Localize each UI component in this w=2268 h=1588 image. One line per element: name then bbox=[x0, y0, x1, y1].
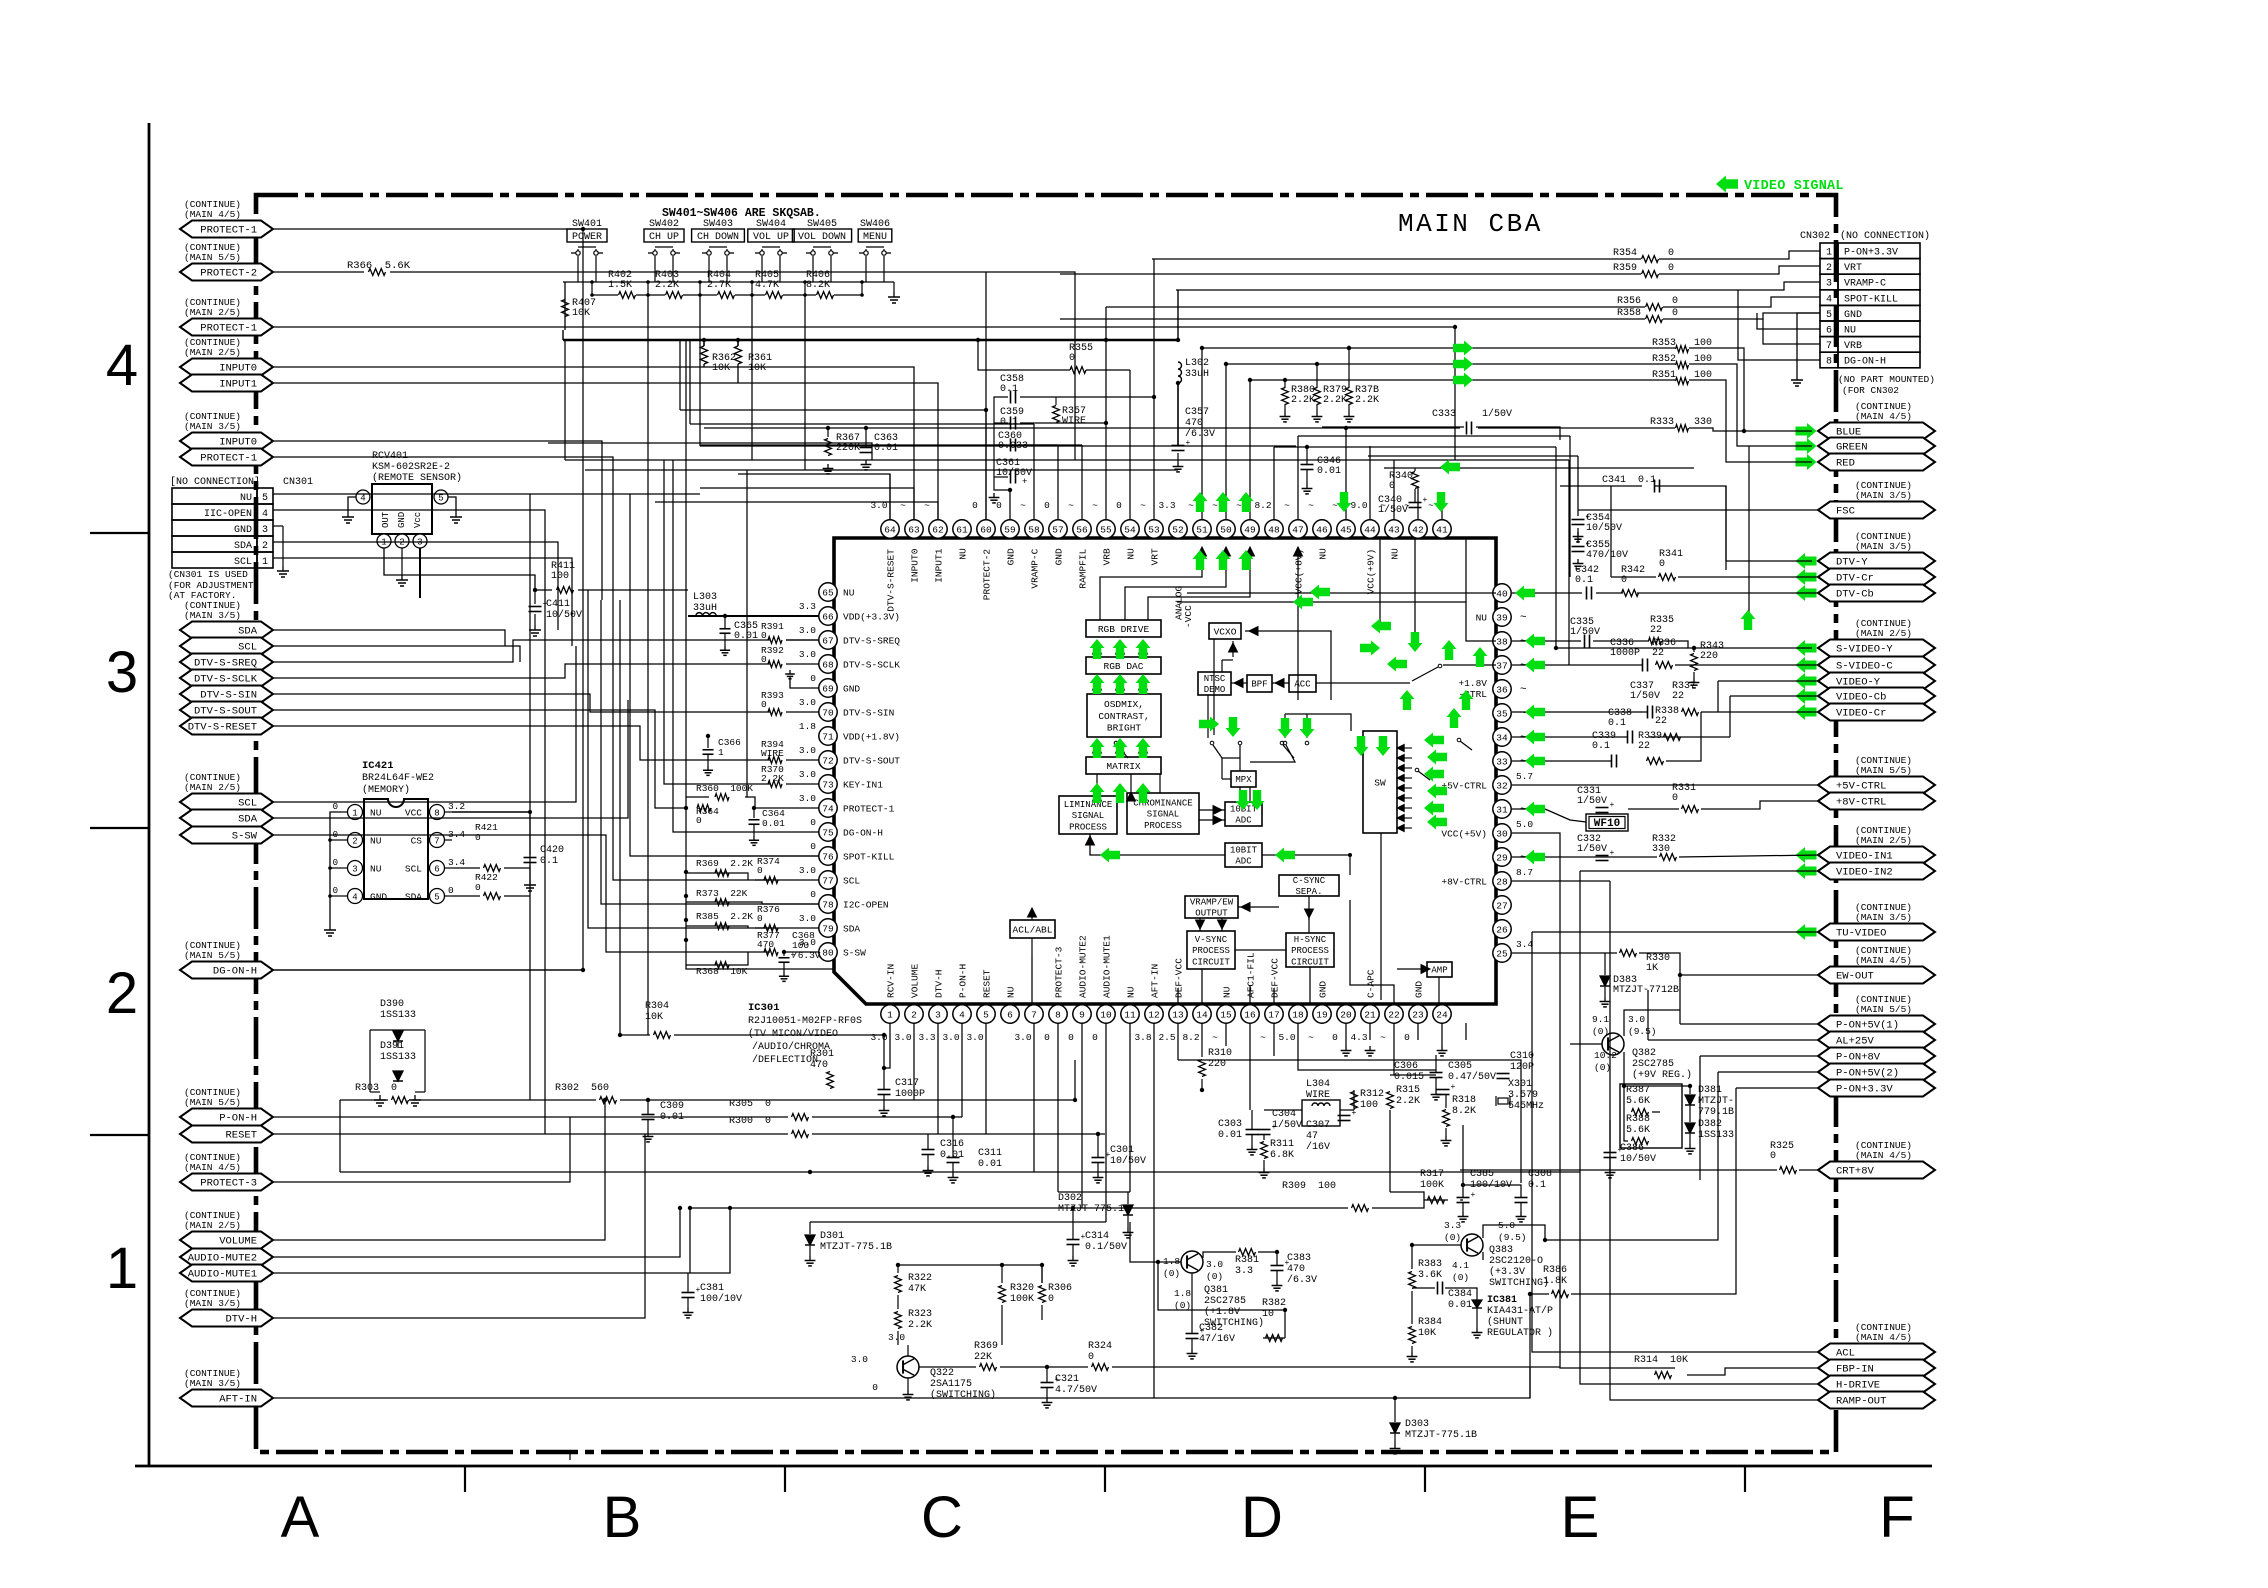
connector label P-ON-H bbox=[180, 1109, 273, 1126]
svg-text:43: 43 bbox=[1388, 524, 1400, 535]
connector label P-ON+3.3V bbox=[1818, 1080, 1935, 1097]
IC301 pin 44 VCC(+9V) bbox=[1361, 520, 1379, 538]
svg-text:PROTECT-1: PROTECT-1 bbox=[200, 323, 257, 335]
wire vert 1532 bbox=[1532, 932, 1818, 1352]
svg-text:R381: R381 bbox=[1235, 1255, 1259, 1266]
IC301 pin 73 KEY-IN1 bbox=[819, 775, 837, 793]
connector label VOLUME bbox=[180, 1232, 273, 1249]
svg-text:DTV-Cr: DTV-Cr bbox=[1836, 573, 1874, 585]
svg-text:CIRCUIT: CIRCUIT bbox=[1192, 957, 1230, 967]
svg-text:3.0: 3.0 bbox=[894, 1032, 911, 1043]
svg-text:0.01: 0.01 bbox=[940, 1150, 964, 1161]
diode D303 MTZJT-775.1B bbox=[1390, 1423, 1400, 1433]
wire pin15 stub bbox=[1225, 1023, 1227, 1046]
IC301 pin 39 NU bbox=[1493, 608, 1511, 626]
svg-text:3.0: 3.0 bbox=[799, 913, 816, 924]
wire R354 row bbox=[1152, 258, 1641, 260]
svg-text:(MAIN 5/5): (MAIN 5/5) bbox=[1855, 1004, 1912, 1015]
IC301 pin 21 C-APC bbox=[1361, 1005, 1379, 1023]
wire top 470 bbox=[585, 469, 1178, 471]
svg-text:34: 34 bbox=[1496, 732, 1508, 743]
IC301 pin 47 VCC(+8V) bbox=[1289, 520, 1307, 538]
svg-text:C309: C309 bbox=[660, 1101, 684, 1112]
svg-text:VIDEO-IN2: VIDEO-IN2 bbox=[1836, 867, 1893, 879]
wire P-ON+3.3V bbox=[1736, 1087, 1818, 1089]
svg-text:(NO CONNECTION): (NO CONNECTION) bbox=[1840, 230, 1930, 242]
svg-text:INPUT0: INPUT0 bbox=[219, 363, 257, 375]
wire pin59 up bbox=[1009, 490, 1011, 520]
IC301 pin 24 bottom bbox=[1433, 1005, 1451, 1023]
wire C386 stub bbox=[1609, 1120, 1611, 1148]
svg-text:100: 100 bbox=[1694, 370, 1712, 381]
svg-text:ACC: ACC bbox=[1294, 680, 1311, 690]
wire DTV-S-SOUT row bbox=[273, 710, 655, 737]
svg-text:64: 64 bbox=[884, 524, 896, 535]
svg-text:DG-ON-H: DG-ON-H bbox=[1844, 357, 1886, 368]
svg-text:3.0: 3.0 bbox=[851, 1354, 868, 1365]
svg-text:(0): (0) bbox=[1594, 1062, 1611, 1073]
svg-text:(MAIN 3/5): (MAIN 3/5) bbox=[184, 1378, 241, 1389]
svg-text:R300 0: R300 0 bbox=[729, 1116, 771, 1127]
svg-text:+: + bbox=[1610, 801, 1615, 810]
svg-text:VDD(+1.8V): VDD(+1.8V) bbox=[843, 732, 900, 743]
green arrow GREEN bbox=[1796, 438, 1817, 454]
svg-text:I2C-OPEN: I2C-OPEN bbox=[843, 900, 889, 911]
wire C385 row bbox=[1463, 1185, 1521, 1197]
connector label DTV-Y bbox=[1818, 553, 1935, 570]
svg-text:22K: 22K bbox=[974, 1352, 992, 1363]
svg-text:3.3: 3.3 bbox=[1444, 1220, 1461, 1231]
svg-text:(0): (0) bbox=[1452, 1272, 1469, 1283]
svg-text:68: 68 bbox=[822, 659, 834, 670]
svg-text:2.2K: 2.2K bbox=[1355, 395, 1379, 406]
wire pin40 row into IC bbox=[1187, 592, 1496, 594]
svg-text:CIRCUIT: CIRCUIT bbox=[1291, 957, 1329, 967]
IC301 pin 78 I2C-OPEN bbox=[819, 895, 837, 913]
svg-text:(MAIN 4/5): (MAIN 4/5) bbox=[1855, 1150, 1912, 1161]
green arrow VIDEO-Cb bbox=[1796, 688, 1817, 704]
svg-text:VOL UP: VOL UP bbox=[753, 232, 789, 243]
green signal arrow bbox=[1525, 634, 1545, 649]
svg-text:DTV-S-SOUT: DTV-S-SOUT bbox=[843, 756, 900, 767]
green signal arrow bbox=[1236, 790, 1251, 810]
green signal arrow bbox=[1300, 718, 1315, 738]
wire VSYNC right bbox=[1235, 949, 1286, 951]
svg-text:C311: C311 bbox=[978, 1148, 1002, 1159]
svg-text:VIDEO-IN1: VIDEO-IN1 bbox=[1836, 851, 1893, 863]
svg-text:VRB: VRB bbox=[1102, 548, 1113, 565]
svg-text:(MAIN 5/5): (MAIN 5/5) bbox=[184, 950, 241, 961]
green signal arrow bbox=[1310, 585, 1330, 600]
grounds D390 D391 bbox=[379, 1095, 381, 1100]
wire Q381 c bbox=[1203, 1252, 1236, 1258]
svg-text:WIRE: WIRE bbox=[761, 748, 784, 759]
connector label VIDEO-IN1 bbox=[1818, 847, 1935, 864]
wire pin48 up bbox=[1273, 447, 1275, 520]
green signal arrow bbox=[1090, 639, 1105, 659]
svg-text:~: ~ bbox=[1428, 500, 1434, 511]
svg-text:~: ~ bbox=[1520, 732, 1527, 744]
svg-text:GND: GND bbox=[1318, 981, 1329, 998]
resistor chain wire bbox=[592, 294, 618, 296]
resistor R320 100K bbox=[999, 1286, 1006, 1303]
svg-text:9.1: 9.1 bbox=[1592, 1014, 1609, 1025]
wire pin51 up bbox=[1201, 348, 1203, 520]
diode D383 MTZJT-7712B bbox=[1600, 976, 1610, 986]
wire R369 row bbox=[686, 873, 748, 880]
svg-text:44: 44 bbox=[1364, 524, 1376, 535]
IC301 pin 62 INPUT1 bbox=[929, 520, 947, 538]
svg-text:2SC2120-O: 2SC2120-O bbox=[1489, 1256, 1543, 1267]
svg-text:GND: GND bbox=[234, 525, 252, 536]
svg-text:MTZJT-: MTZJT- bbox=[1698, 1096, 1734, 1107]
wire pin30 row bbox=[1512, 833, 1560, 880]
svg-text:AFT-IN: AFT-IN bbox=[1150, 964, 1161, 998]
svg-text:P-ON+5V(2): P-ON+5V(2) bbox=[1836, 1068, 1899, 1080]
svg-text:D390: D390 bbox=[380, 999, 404, 1010]
svg-text:VIDEO-Cr: VIDEO-Cr bbox=[1836, 708, 1886, 720]
wire VRAMP/EW to C-SYNC bbox=[1238, 906, 1279, 908]
wire AL+25V bbox=[1648, 1039, 1818, 1041]
wire pin31 switch bbox=[1512, 808, 1545, 810]
wire vert700 bbox=[699, 295, 701, 446]
svg-text:1.8K: 1.8K bbox=[1543, 1276, 1567, 1287]
wire pin21 down bbox=[1393, 1023, 1395, 1075]
junction dots bbox=[533, 588, 537, 592]
svg-text:IC381: IC381 bbox=[1487, 1295, 1517, 1306]
wire top460 ext bbox=[1455, 459, 1569, 461]
svg-text:~: ~ bbox=[1092, 500, 1098, 511]
svg-text:37: 37 bbox=[1496, 660, 1507, 671]
svg-text:P-ON+5V(1): P-ON+5V(1) bbox=[1836, 1020, 1899, 1032]
IC301 pin 54 NU bbox=[1121, 520, 1139, 538]
wire R317 row bbox=[1424, 1199, 1448, 1201]
IC301 pin 23 GND bbox=[1409, 1005, 1427, 1023]
wire PROTECT-1 long bbox=[273, 327, 1455, 460]
connector label DTV-S-SCLK bbox=[180, 670, 273, 687]
block SW bbox=[1363, 731, 1397, 833]
schematic dash-dot border bbox=[256, 195, 1836, 1452]
connector label S-VIDEO-C bbox=[1818, 657, 1935, 674]
svg-text:RCV-IN: RCV-IN bbox=[886, 964, 897, 998]
svg-text:RESET: RESET bbox=[982, 969, 993, 998]
svg-text:DTV-S-SCLK: DTV-S-SCLK bbox=[194, 674, 258, 686]
connector label P-ON+5V(2) bbox=[1818, 1064, 1935, 1081]
svg-text:1/50V: 1/50V bbox=[1272, 1119, 1302, 1131]
IC301 pin 74 PROTECT-1 bbox=[819, 799, 837, 817]
wire pin23 down bbox=[1441, 1023, 1443, 1046]
wire vert690 bbox=[689, 340, 691, 424]
svg-text:6: 6 bbox=[1007, 1009, 1013, 1020]
svg-text:3.0: 3.0 bbox=[1628, 1014, 1645, 1025]
svg-text:2.2K: 2.2K bbox=[1323, 395, 1347, 406]
wire DTV-S-SREQ end bbox=[786, 639, 819, 641]
svg-text:3.8: 3.8 bbox=[1134, 1032, 1151, 1043]
svg-text:0: 0 bbox=[1668, 248, 1674, 259]
green signal arrow bbox=[1473, 647, 1488, 667]
svg-text:4: 4 bbox=[106, 333, 138, 398]
svg-text:80: 80 bbox=[822, 947, 834, 958]
svg-text:R305 0: R305 0 bbox=[729, 1099, 771, 1110]
svg-text:SIGNAL: SIGNAL bbox=[1072, 811, 1104, 821]
switch network wires bbox=[563, 281, 894, 283]
svg-text:ACL: ACL bbox=[1836, 1348, 1855, 1360]
green arrow DTV-Y bbox=[1796, 553, 1817, 569]
svg-text:~: ~ bbox=[1236, 500, 1242, 511]
svg-text:SDA: SDA bbox=[843, 924, 860, 935]
IC301 pin 70 DTV-S-SIN bbox=[819, 703, 837, 721]
wire pin14 down bbox=[1201, 1023, 1203, 1040]
svg-text:0: 0 bbox=[1404, 1032, 1410, 1043]
svg-text:(+9V REG.): (+9V REG.) bbox=[1632, 1069, 1692, 1081]
wire top 424 bbox=[690, 423, 1034, 425]
svg-text:DEF-VCC: DEF-VCC bbox=[1270, 958, 1281, 998]
svg-text:2.5: 2.5 bbox=[1158, 1032, 1175, 1043]
IC301 pin 50 top bbox=[1217, 520, 1235, 538]
svg-text:IC421: IC421 bbox=[362, 760, 394, 772]
svg-text:2: 2 bbox=[262, 541, 268, 552]
wire row 429 bbox=[704, 427, 1344, 429]
svg-text:~: ~ bbox=[1308, 500, 1314, 511]
svg-text:0.1: 0.1 bbox=[1592, 741, 1610, 752]
wire DTV-Cr row bbox=[1678, 576, 1818, 578]
svg-text:R301: R301 bbox=[810, 1049, 834, 1060]
svg-text:C304: C304 bbox=[1272, 1109, 1296, 1120]
wire R317 left bbox=[1390, 1192, 1424, 1200]
green signal arrow bbox=[1453, 373, 1473, 388]
svg-text:NU: NU bbox=[1222, 986, 1233, 998]
capacitor C411 10/50V bbox=[534, 590, 536, 604]
wire CN301 SDA bbox=[273, 542, 558, 630]
wire bottom bus 1192 bbox=[1058, 1191, 1130, 1193]
wire C385 top bbox=[1462, 1185, 1464, 1197]
IC301 pin 61 NU bbox=[953, 520, 971, 538]
connector label PROTECT-1 bbox=[180, 449, 273, 466]
green signal arrow bbox=[1090, 783, 1105, 803]
IC301 pin 56 RAMPFIL bbox=[1073, 520, 1091, 538]
block RGB DAC bbox=[1086, 657, 1161, 674]
wire pin38 rowB bbox=[1593, 640, 1649, 642]
green signal arrow bbox=[1424, 767, 1444, 782]
wire C-SYNC SEPA down bbox=[1308, 896, 1310, 920]
wire EW-OUT vert bbox=[1679, 975, 1681, 1024]
svg-text:42: 42 bbox=[1412, 524, 1424, 535]
wire vert 1390 bbox=[1389, 1110, 1391, 1192]
wire HSYNC up bbox=[1309, 967, 1311, 990]
wire pin40 row3 bbox=[1637, 592, 1818, 594]
wire DTV-H row bbox=[273, 1134, 645, 1318]
connector label FSC bbox=[1818, 502, 1935, 519]
svg-text:SDA: SDA bbox=[238, 814, 258, 826]
wire vert 1569 bbox=[1568, 460, 1570, 665]
svg-text:17: 17 bbox=[1268, 1009, 1279, 1020]
wire R309 vert bbox=[689, 1208, 691, 1273]
wire vert680 bbox=[679, 340, 681, 410]
svg-text:(SHUNT: (SHUNT bbox=[1487, 1316, 1523, 1328]
svg-text:~: ~ bbox=[1520, 660, 1527, 672]
svg-text:11: 11 bbox=[1124, 1009, 1136, 1020]
connector label DTV-H bbox=[180, 1310, 273, 1327]
wire vert 1463 bbox=[1462, 1125, 1464, 1185]
wire C354 C355 link bbox=[1577, 528, 1579, 543]
svg-text:3.3: 3.3 bbox=[1158, 500, 1175, 511]
svg-text:12: 12 bbox=[1148, 1009, 1160, 1020]
svg-text:1SS133: 1SS133 bbox=[380, 1010, 416, 1021]
svg-text:1: 1 bbox=[718, 747, 724, 758]
svg-text:KEY-IN1: KEY-IN1 bbox=[843, 780, 883, 791]
wire osc row2 bbox=[1340, 1109, 1354, 1111]
wire CRT+8V row bbox=[1460, 1169, 1777, 1171]
svg-text:+: + bbox=[1272, 1123, 1277, 1132]
svg-text:KIA431-AT/P: KIA431-AT/P bbox=[1487, 1305, 1553, 1317]
svg-text:R354: R354 bbox=[1613, 248, 1637, 259]
wire CN301 IIC-OPEN bbox=[273, 510, 545, 588]
svg-text:(FOR CN302: (FOR CN302 bbox=[1842, 385, 1899, 396]
svg-text:(MAIN 2/5): (MAIN 2/5) bbox=[1855, 835, 1912, 846]
svg-text:VDD(+3.3V): VDD(+3.3V) bbox=[843, 612, 900, 623]
svg-text:40: 40 bbox=[1496, 588, 1508, 599]
svg-text:3.2: 3.2 bbox=[448, 801, 465, 812]
svg-text:2: 2 bbox=[1826, 263, 1832, 274]
svg-text:55: 55 bbox=[1100, 524, 1112, 535]
svg-text:C420: C420 bbox=[540, 845, 564, 856]
svg-text:DTV-H: DTV-H bbox=[934, 969, 945, 998]
svg-text:C316: C316 bbox=[940, 1139, 964, 1150]
block V-SYNC PROCESS CIRCUIT bbox=[1187, 931, 1235, 969]
svg-text:MATRIX: MATRIX bbox=[1106, 761, 1141, 772]
svg-text:3.0: 3.0 bbox=[942, 1032, 959, 1043]
svg-text:545MHz: 545MHz bbox=[1508, 1101, 1544, 1112]
wire vert530 bbox=[529, 494, 531, 1100]
svg-text:56: 56 bbox=[1076, 524, 1088, 535]
svg-text:14: 14 bbox=[1196, 1009, 1208, 1020]
svg-text:(MAIN 3/5): (MAIN 3/5) bbox=[1855, 912, 1912, 923]
wire bottom bus 1222 bbox=[810, 1221, 1106, 1223]
wire R356 row bbox=[1106, 306, 1645, 308]
IC301 pin 32 +5V-CTRL bbox=[1493, 776, 1511, 794]
svg-text:0: 0 bbox=[810, 673, 816, 684]
svg-text:~: ~ bbox=[1520, 852, 1527, 864]
svg-text:VRT: VRT bbox=[1150, 548, 1161, 565]
svg-text:AUDIO-MUTE1: AUDIO-MUTE1 bbox=[1102, 935, 1113, 998]
green signal arrow bbox=[1408, 632, 1423, 652]
svg-text:INPUT0: INPUT0 bbox=[219, 437, 257, 449]
RCV401 pin wires bbox=[384, 548, 535, 590]
svg-text:2.7K: 2.7K bbox=[707, 280, 731, 291]
bus vertical c bbox=[613, 620, 770, 880]
ground C361 column bbox=[994, 397, 1010, 490]
IC301 pin 58 VRAMP-C bbox=[1025, 520, 1043, 538]
wire pin37 row bbox=[1512, 664, 1642, 666]
svg-text:10K: 10K bbox=[572, 308, 590, 319]
svg-text:2: 2 bbox=[352, 837, 357, 847]
IC301 pin 43 NU bbox=[1385, 520, 1403, 538]
svg-text:4: 4 bbox=[1826, 294, 1832, 305]
wire vert 1610 bbox=[1610, 881, 1818, 1400]
wire BPF to NTSC DEMO bbox=[1231, 682, 1247, 684]
IC301 pin 46 NU bbox=[1313, 520, 1331, 538]
svg-text:VRT: VRT bbox=[1844, 263, 1862, 274]
svg-text:5: 5 bbox=[983, 1009, 989, 1020]
green signal arrow bbox=[1113, 783, 1128, 803]
wire pin29 row bbox=[1512, 856, 1657, 858]
wire R387 rows bbox=[1624, 1086, 1628, 1141]
IC301 pin 53 VRT bbox=[1145, 520, 1163, 538]
svg-text:3.0: 3.0 bbox=[888, 1332, 905, 1343]
svg-text:59: 59 bbox=[1004, 524, 1016, 535]
IC421 pin 4 GND bbox=[348, 889, 363, 904]
green signal arrow bbox=[1447, 708, 1462, 728]
svg-text:NU: NU bbox=[370, 808, 382, 819]
wire R355 row bbox=[978, 340, 1070, 370]
wire switch right pair bbox=[1283, 741, 1287, 745]
wire C333 row mid bbox=[1478, 427, 1675, 429]
svg-text:DTV-S-SCLK: DTV-S-SCLK bbox=[843, 660, 900, 671]
resistor R322 47K bbox=[895, 1276, 902, 1293]
wire pin57 up bbox=[1057, 445, 1059, 520]
wire AUDIO-MUTE1 row2 bbox=[688, 1208, 730, 1273]
svg-text:0: 0 bbox=[996, 500, 1002, 511]
svg-text:(MAIN 4/5): (MAIN 4/5) bbox=[1855, 955, 1912, 966]
wire C341 rowB bbox=[1611, 485, 1642, 487]
wire row 474 bbox=[738, 474, 890, 520]
svg-text:R306: R306 bbox=[1048, 1283, 1072, 1294]
connector label S-SW bbox=[180, 827, 273, 844]
IC301 pin 7 bottom bbox=[1025, 1005, 1043, 1023]
svg-text:47/16V: 47/16V bbox=[1199, 1333, 1235, 1345]
svg-text:7: 7 bbox=[434, 837, 439, 847]
svg-text:+: + bbox=[1186, 439, 1191, 448]
svg-text:10K: 10K bbox=[1418, 1328, 1436, 1339]
IC301 pin 69 GND bbox=[819, 679, 837, 697]
svg-text:R2J10051-M02FP-RF0S: R2J10051-M02FP-RF0S bbox=[748, 1016, 862, 1027]
wire Q381 vert bbox=[1158, 1262, 1285, 1338]
IC301 pin 76 SPOT-KILL bbox=[819, 847, 837, 865]
svg-text:C314: C314 bbox=[1085, 1231, 1109, 1242]
IC301 pin 34 right bbox=[1493, 728, 1511, 746]
svg-text:+: + bbox=[1055, 1376, 1060, 1385]
svg-text:33uH: 33uH bbox=[1185, 369, 1209, 380]
svg-text:SDA: SDA bbox=[238, 626, 258, 638]
wire PROTECT-1 c bbox=[273, 457, 613, 620]
wire ACC input bbox=[1316, 682, 1410, 684]
connector label AUDIO-MUTE1 bbox=[180, 1265, 273, 1282]
wire pin34 row2 bbox=[1649, 736, 1730, 738]
wire vert545 bbox=[544, 588, 546, 1134]
svg-text:FSC: FSC bbox=[1836, 506, 1855, 518]
IC301 pin 65 NU bbox=[819, 583, 837, 601]
wire R358 row2 bbox=[1663, 313, 1820, 319]
IC421 left pins common wire to ground bbox=[330, 812, 341, 925]
svg-text:~: ~ bbox=[1308, 1032, 1314, 1043]
svg-text:NU: NU bbox=[1318, 548, 1329, 560]
wire PROTECT-1 pin74 bbox=[745, 797, 819, 808]
svg-text:PROCESS: PROCESS bbox=[1069, 822, 1107, 832]
wire R351 row2 bbox=[1689, 380, 1812, 462]
wire R385 row bbox=[686, 926, 748, 928]
bus vertical e bbox=[655, 737, 686, 808]
svg-text:5.6K: 5.6K bbox=[1626, 1125, 1650, 1136]
wire INPUT0 bbox=[273, 367, 914, 520]
green signal arrow bbox=[1239, 550, 1254, 570]
svg-text:8.2K: 8.2K bbox=[806, 280, 830, 291]
wire pin60 up bbox=[985, 272, 987, 520]
wire C341 row bbox=[1560, 485, 1611, 487]
wire bus340 to R407 bbox=[562, 330, 564, 340]
svg-text:IIC-OPEN: IIC-OPEN bbox=[204, 509, 252, 520]
svg-text:R369: R369 bbox=[974, 1341, 998, 1352]
IC301 pin 19 GND bbox=[1313, 1005, 1331, 1023]
